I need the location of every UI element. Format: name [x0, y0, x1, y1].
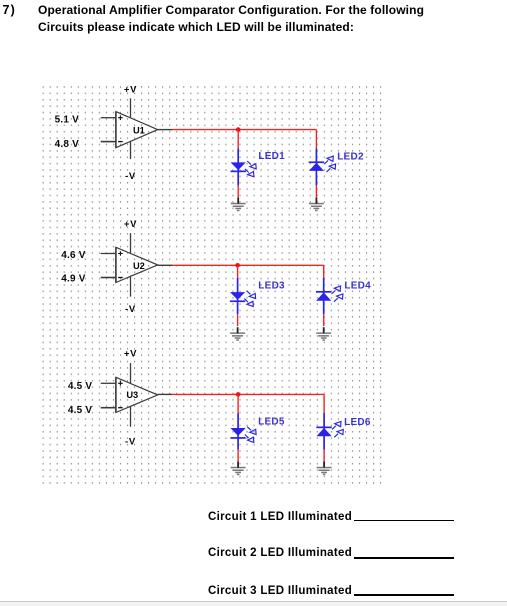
wire LED5 to ground (red): [237, 450, 239, 463]
svg-text:-V: -V: [125, 171, 136, 182]
op-amp U1: [116, 112, 158, 148]
power -V supply U2: [125, 277, 136, 315]
wire junction to LED1 (red then blue): [237, 130, 239, 186]
svg-text:+V: +V: [124, 84, 137, 95]
LED4 diode (cathode up): [316, 286, 343, 302]
junction node circuit 3: [236, 392, 241, 397]
answer line circuit 2: [208, 547, 352, 559]
power +V supply U3: [124, 348, 137, 383]
svg-text:LED2: LED2: [337, 152, 364, 163]
power +V supply U2: [124, 219, 137, 253]
svg-text:4.6 V: 4.6 V: [61, 250, 85, 261]
wire corner down to LED4 (red then blue): [323, 265, 325, 314]
wire corner down to LED2 (red then blue): [315, 130, 317, 186]
wire U2 output stub: [158, 264, 173, 266]
op-amp U2: [116, 247, 158, 282]
wire LED2 to ground (red): [315, 185, 317, 197]
wire U3 output stub: [158, 393, 173, 395]
LED5 diode (cathode down): [230, 427, 256, 443]
svg-text:4.5 V: 4.5 V: [68, 381, 92, 392]
wire U2 output to LEDs (red): [173, 264, 324, 266]
LED1 diode (cathode down): [231, 161, 257, 177]
answer line circuit 3: [208, 585, 352, 597]
LED3 diode (cathode down): [230, 291, 256, 307]
svg-text:LED5: LED5: [258, 417, 285, 428]
op-amp U3: [116, 377, 158, 412]
power +V supply U1: [124, 84, 137, 117]
wire U3 output to LEDs (red): [173, 393, 324, 395]
wire U1 output to LEDs (red): [173, 129, 317, 131]
svg-text:4.8 V: 4.8 V: [55, 139, 79, 150]
wire LED6 to ground (red): [323, 450, 325, 463]
wire U2 non-inverting input: [101, 253, 116, 255]
ground below LED3: [230, 327, 245, 341]
LED6 diode (cathode up): [316, 422, 343, 438]
ground below LED1: [231, 198, 246, 212]
svg-text:+V: +V: [124, 219, 137, 230]
ground below LED6: [317, 462, 332, 476]
wire U1 non-inverting input: [101, 117, 116, 119]
svg-text:-V: -V: [125, 304, 136, 315]
wire corner down to LED6 (red then blue): [323, 394, 325, 449]
svg-text:LED3: LED3: [258, 281, 285, 292]
wire LED4 to ground (red): [323, 314, 325, 326]
power -V supply U3: [125, 407, 136, 448]
ground below LED2: [309, 198, 324, 212]
svg-text:U1: U1: [133, 125, 145, 135]
svg-text:LED6: LED6: [344, 417, 371, 428]
question number 7): [3, 3, 17, 17]
junction node circuit 1: [236, 127, 241, 132]
page bottom edge: [0, 601, 507, 606]
ground below LED5: [231, 462, 246, 476]
svg-text:LED1: LED1: [258, 151, 285, 162]
wire U1 inverting input: [101, 141, 116, 143]
wire junction to LED5 (red then blue): [237, 394, 239, 449]
wire U3 inverting input: [101, 407, 116, 409]
wire U1 output stub: [158, 129, 173, 131]
wire LED3 to ground (red): [237, 314, 239, 326]
ground below LED4: [316, 327, 331, 341]
svg-text:-V: -V: [125, 437, 136, 448]
svg-text:4.5 V: 4.5 V: [68, 405, 92, 416]
svg-text:4.9 V: 4.9 V: [61, 274, 85, 285]
answer line circuit 1: [208, 511, 352, 523]
junction node circuit 2: [235, 263, 240, 268]
power -V supply U1: [125, 142, 136, 182]
wire U2 inverting input: [101, 277, 116, 279]
svg-text:U3: U3: [126, 390, 138, 400]
svg-text:LED4: LED4: [344, 280, 371, 291]
svg-text:U2: U2: [133, 261, 145, 271]
wire LED1 to ground (red): [237, 185, 239, 197]
question text: [38, 2, 468, 37]
wire U3 non-inverting input: [101, 382, 116, 384]
svg-text:+V: +V: [124, 348, 137, 359]
wire junction to LED3 (red then blue): [237, 265, 239, 314]
svg-text:5.1 V: 5.1 V: [55, 115, 79, 126]
LED2 diode (cathode up): [309, 156, 336, 172]
